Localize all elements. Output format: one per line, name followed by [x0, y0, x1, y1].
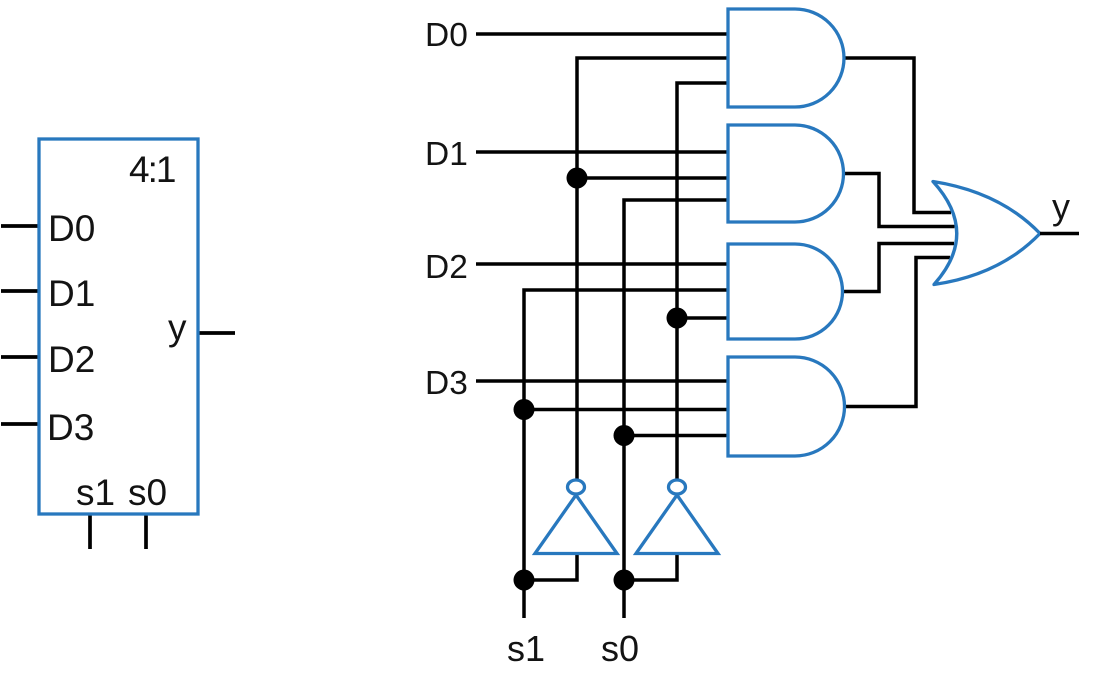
inverter U6 triangle (s0): [636, 495, 718, 554]
junction dot s1' to U2: [567, 168, 588, 189]
AND gate U2: [728, 125, 844, 222]
svg-text:s0: s0: [601, 628, 639, 669]
svg-text:D1: D1: [48, 273, 95, 314]
junction dot s0' to U3: [667, 308, 688, 329]
svg-text:y: y: [168, 307, 187, 348]
wire branch s1' to AND U2 input 2: [577, 176, 728, 180]
wire D2 stub (mux block input): [1, 355, 39, 359]
AND gate U3: [728, 244, 843, 339]
mux block 4:1 rectangle: [39, 139, 198, 514]
wire D1 stub (mux block input): [1, 289, 39, 293]
wire D0 to AND gate U1: [476, 32, 728, 36]
wire D0 stub (mux block input): [1, 224, 39, 228]
wire D3 to AND gate U4: [476, 379, 728, 383]
wire AND U3 output to OR gate: [843, 244, 954, 292]
wire branch s1 to AND U4 input 2: [524, 408, 728, 412]
OR gate U7: [933, 182, 1040, 285]
svg-text:D0: D0: [425, 17, 468, 54]
wire D1 to AND gate U2: [476, 150, 728, 154]
inverter U5 bubble: [568, 480, 585, 494]
wire s1 stub (mux block select): [88, 515, 92, 549]
wire net s0 vertical up to AND U2 input 3: [624, 200, 728, 618]
wire OR gate output to y: [1040, 232, 1079, 236]
svg-text:s1: s1: [76, 472, 115, 513]
svg-text:D3: D3: [425, 365, 468, 402]
wire D2 to AND gate U3: [476, 262, 728, 266]
svg-text:D2: D2: [48, 339, 95, 380]
svg-text:D3: D3: [47, 407, 94, 448]
wire branch s1 to inverter U5 input: [524, 552, 577, 580]
wire net s0' from inverter U6 output up to AND U1 input 3: [677, 83, 728, 480]
svg-text:D0: D0: [48, 208, 95, 249]
junction dot s1 to inverter U5: [514, 570, 535, 591]
svg-text:s1: s1: [507, 628, 545, 669]
inverter U5 triangle (s1): [535, 495, 617, 554]
wire y output stub (mux block): [198, 331, 235, 335]
wire branch s0 to inverter U6 input: [624, 552, 677, 580]
wire AND U2 output to OR gate: [843, 174, 955, 227]
wire AND U4 output to OR gate: [844, 258, 950, 407]
AND gate U4: [728, 357, 845, 456]
svg-text:D2: D2: [425, 249, 468, 286]
wire D3 stub (mux block input): [1, 422, 39, 426]
wire branch s0' to AND U3 input 3: [677, 316, 728, 320]
svg-text:4:1: 4:1: [129, 149, 175, 190]
svg-text:D1: D1: [425, 136, 468, 173]
wire AND U1 output to OR gate: [844, 58, 951, 213]
junction dot s0 to inverter U6: [614, 570, 635, 591]
wire branch s0 to AND U4 input 3: [624, 434, 728, 438]
inverter U6 bubble: [669, 480, 686, 494]
svg-text:y: y: [1052, 186, 1070, 227]
svg-text:s0: s0: [128, 472, 167, 513]
wire net s1 vertical up to AND U3 input 2: [524, 290, 728, 618]
junction dot s0 to U4: [614, 425, 635, 446]
junction dot s1 to U4: [514, 399, 535, 420]
wire net s1' from inverter U5 output up to AND U1 input 2: [577, 58, 728, 480]
AND gate U1: [728, 9, 844, 107]
wire s0 stub (mux block select): [144, 515, 148, 549]
